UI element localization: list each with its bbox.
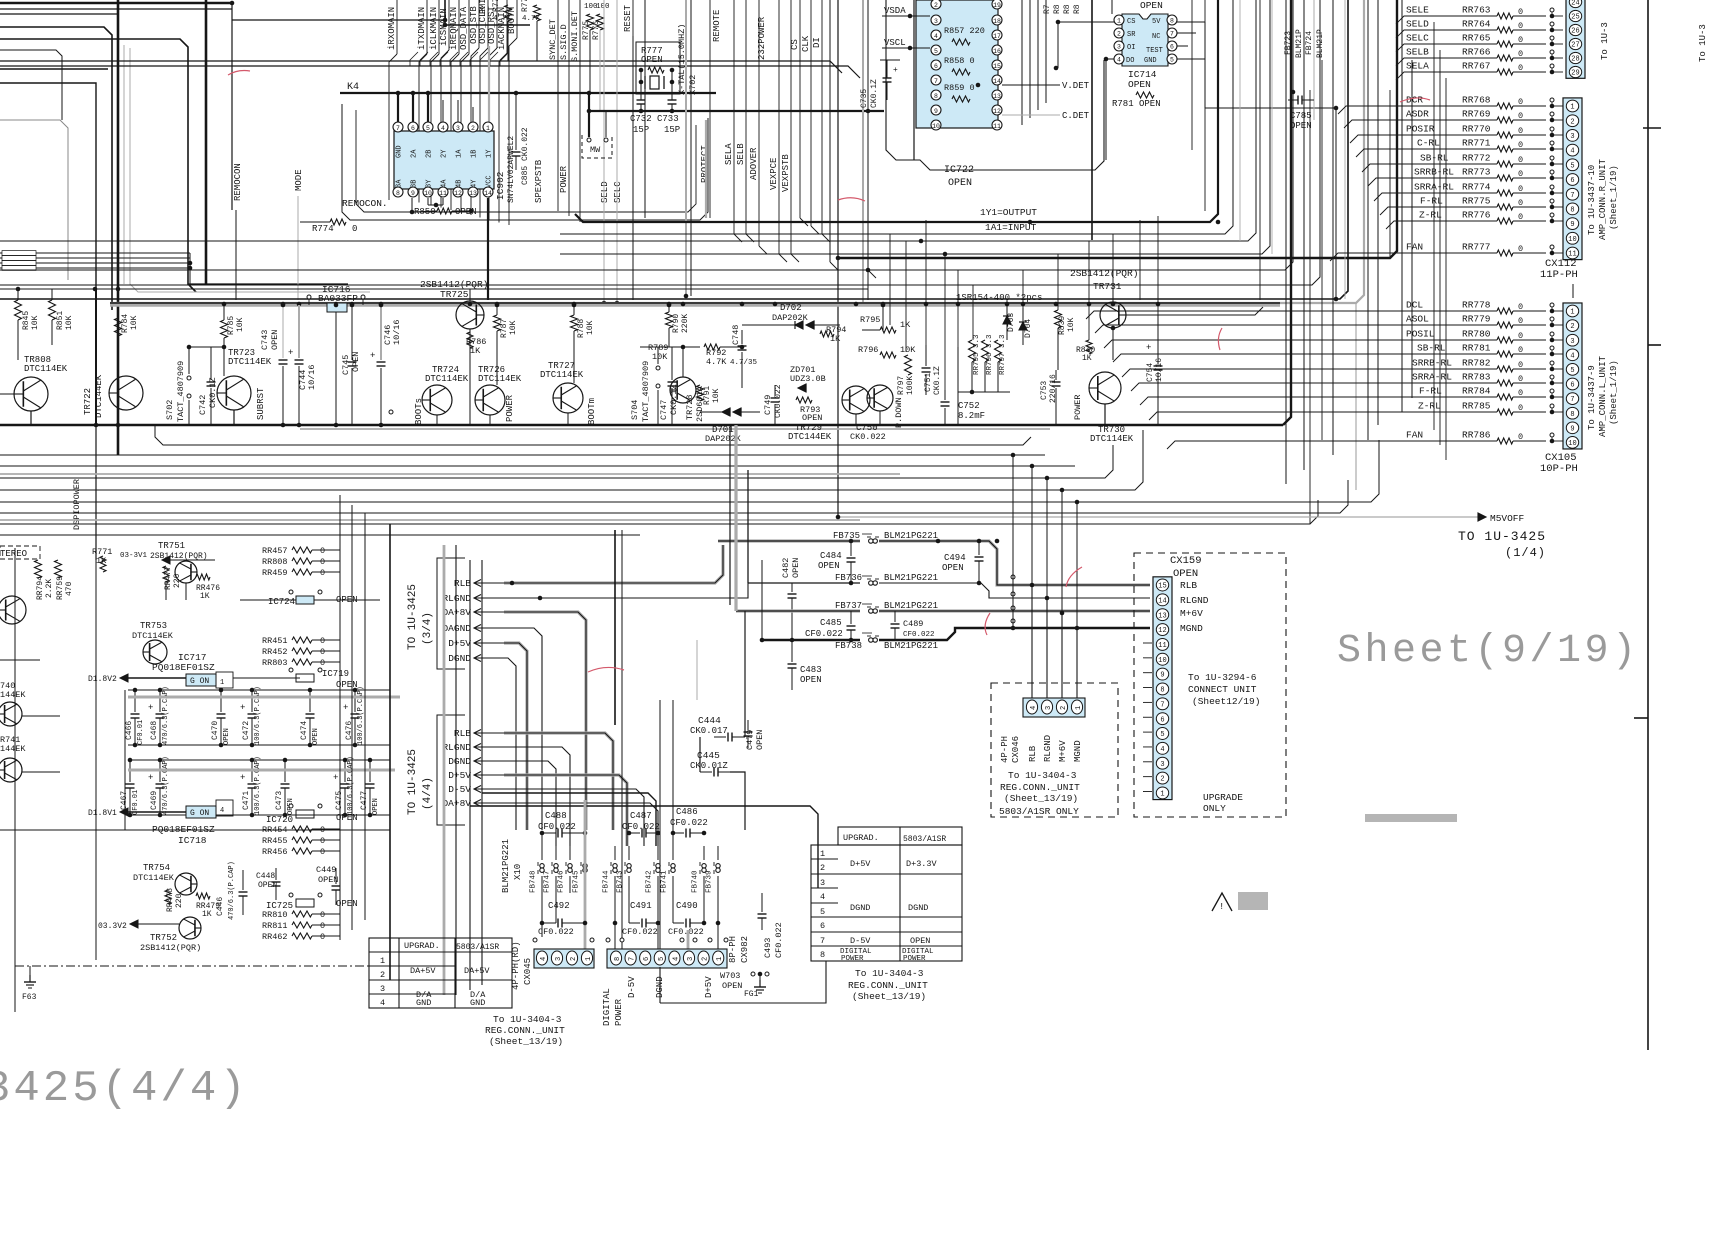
svg-text:R858 0: R858 0 <box>944 56 975 66</box>
tick <box>1648 344 1661 346</box>
pin 2 <box>698 951 709 965</box>
jogs <box>734 234 742 242</box>
node <box>1550 8 1554 12</box>
svg-text:C489: C489 <box>903 619 923 629</box>
svg-text:C466: C466 <box>125 721 134 740</box>
wire <box>308 299 310 305</box>
svg-text:15P: 15P <box>633 125 649 135</box>
wire <box>685 0 687 296</box>
svg-text:8: 8 <box>1570 207 1574 215</box>
ferrite bead FB738 <box>762 639 860 641</box>
wire <box>1143 701 1152 703</box>
wire <box>300 428 1050 430</box>
node <box>1550 361 1554 365</box>
wire <box>504 612 586 830</box>
svg-text:3: 3 <box>1160 761 1164 769</box>
open pin stubs <box>533 938 537 942</box>
svg-text:DCL: DCL <box>1406 300 1423 311</box>
svg-text:0: 0 <box>320 836 325 846</box>
svg-text:C476: C476 <box>345 721 354 740</box>
wire <box>1057 254 1059 310</box>
svg-text:RR797 3.3: RR797 3.3 <box>999 334 1007 375</box>
svg-text:SRRA-RL: SRRA-RL <box>1414 182 1454 193</box>
svg-text:10P-PH: 10P-PH <box>1540 463 1578 475</box>
svg-text:FB737: FB737 <box>835 601 862 611</box>
pin 9 <box>408 187 418 197</box>
wire <box>659 967 661 1003</box>
svg-text:POWER: POWER <box>841 955 864 963</box>
svg-text:4: 4 <box>540 957 548 961</box>
resistor RR796 <box>982 340 989 362</box>
wire <box>660 961 826 1003</box>
svg-text:FB736: FB736 <box>835 573 862 583</box>
resistor R839 <box>1055 310 1062 328</box>
ferrite bead FB743 <box>628 846 630 860</box>
svg-text:2: 2 <box>1160 776 1164 784</box>
wire <box>1271 0 1273 254</box>
svg-text:2B: 2B <box>426 150 434 158</box>
svg-text:POSIR: POSIR <box>1406 124 1435 135</box>
svg-text:3: 3 <box>820 878 825 888</box>
svg-text:(3/4): (3/4) <box>422 612 434 645</box>
svg-text:2: 2 <box>702 957 710 961</box>
resistor R774 <box>330 219 346 225</box>
node <box>1550 36 1554 40</box>
resistor R775 <box>587 14 594 30</box>
svg-text:CF0.022: CF0.022 <box>668 927 704 937</box>
wire <box>402 540 404 545</box>
wire <box>573 305 575 315</box>
svg-text:C-RL: C-RL <box>1417 138 1440 149</box>
svg-text:DA+5V: DA+5V <box>410 966 436 976</box>
svg-text:To 1U-3404-3: To 1U-3404-3 <box>855 968 924 979</box>
wire <box>1106 58 1114 60</box>
svg-text:OPEN: OPEN <box>948 178 972 189</box>
svg-text:220: 220 <box>173 573 182 588</box>
pin 7 <box>931 75 941 85</box>
wire <box>1061 613 1063 700</box>
svg-text:+: + <box>240 703 245 713</box>
svg-text:To 1U-3: To 1U-3 <box>1600 22 1610 60</box>
wire <box>364 513 366 920</box>
svg-text:FB739: FB739 <box>706 870 714 893</box>
svg-text:K4: K4 <box>347 82 359 93</box>
svg-text:3: 3 <box>1117 44 1121 51</box>
svg-text:3: 3 <box>555 957 563 961</box>
svg-text:FB741: FB741 <box>661 870 669 893</box>
svg-text:OPEN: OPEN <box>1140 0 1163 11</box>
svg-text:470/6.3(P.CAP): 470/6.3(P.CAP) <box>228 861 236 920</box>
svg-text:5803/A1SR: 5803/A1SR <box>903 835 946 844</box>
pin 5 <box>1167 54 1177 64</box>
svg-text:+: + <box>148 703 153 713</box>
wire <box>1239 0 1241 241</box>
svg-text:R788: R788 <box>577 319 586 338</box>
wire <box>30 411 32 425</box>
connector CX046 outline <box>991 683 1118 817</box>
svg-text:0: 0 <box>1518 111 1523 121</box>
wire <box>0 424 1283 426</box>
wire <box>515 93 517 133</box>
node <box>1550 213 1554 217</box>
svg-text:G ON: G ON <box>190 809 209 818</box>
svg-text:AMP_CONN.R_UNIT: AMP_CONN.R_UNIT <box>1598 158 1608 240</box>
svg-text:RR780: RR780 <box>1462 329 1491 340</box>
svg-text:R8: R8 <box>1073 4 1082 14</box>
pin 4 <box>669 951 680 965</box>
svg-text:1B: 1B <box>471 150 479 158</box>
svg-text:RR795 3.3: RR795 3.3 <box>973 334 981 375</box>
svg-text:R8: R8 <box>1053 4 1062 14</box>
svg-text:12: 12 <box>1158 627 1166 635</box>
wire <box>1002 84 1060 86</box>
pin 1 <box>483 122 493 132</box>
wire <box>450 52 458 66</box>
ferrite bead FB747 <box>555 846 557 860</box>
red mark <box>1218 328 1222 350</box>
svg-text:6: 6 <box>1170 44 1174 51</box>
svg-text:R773: R773 <box>521 0 530 12</box>
svg-text:To 1U-3437-9: To 1U-3437-9 <box>1587 365 1597 430</box>
svg-text:RR774: RR774 <box>1462 182 1491 193</box>
svg-text:0: 0 <box>320 847 325 857</box>
svg-text:8: 8 <box>820 950 825 960</box>
svg-text:TR751: TR751 <box>158 541 185 551</box>
svg-text:0: 0 <box>320 932 325 942</box>
resistor R776 <box>597 14 604 30</box>
op-amp U-IC902 body <box>394 131 494 189</box>
node <box>1028 220 1033 225</box>
svg-text:+: + <box>893 66 898 75</box>
svg-text:RR796 3.3: RR796 3.3 <box>986 334 994 375</box>
svg-text:TEREO: TEREO <box>0 549 27 559</box>
svg-text:8.2mF: 8.2mF <box>958 411 985 421</box>
svg-text:+: + <box>1146 343 1151 353</box>
svg-text:13: 13 <box>469 190 477 197</box>
wire <box>972 285 974 340</box>
svg-text:DTC114EK: DTC114EK <box>478 374 522 384</box>
wire <box>734 425 737 611</box>
wire <box>0 0 1348 299</box>
wire <box>427 198 429 205</box>
ferrite bead FB748 <box>541 846 543 860</box>
node <box>230 1 235 6</box>
wire <box>0 473 900 475</box>
svg-text:TR754: TR754 <box>143 863 170 873</box>
connector pins <box>1566 0 1585 78</box>
node <box>222 302 227 307</box>
wire <box>0 262 190 264</box>
wire <box>110 302 1280 304</box>
svg-text:19: 19 <box>993 2 1001 9</box>
svg-text:10: 10 <box>1568 236 1576 244</box>
wire <box>1396 16 1497 24</box>
wire <box>1112 289 1114 302</box>
svg-text:CF0.022: CF0.022 <box>622 822 660 832</box>
svg-text:2: 2 <box>820 863 825 873</box>
wire <box>0 0 1256 241</box>
svg-text:OSD_DATA: OSD_DATA <box>459 6 469 50</box>
svg-text:11: 11 <box>1158 642 1166 650</box>
wire <box>469 329 471 425</box>
svg-text:S702: S702 <box>165 400 175 420</box>
svg-text:RR763: RR763 <box>1462 5 1491 16</box>
wire <box>117 336 119 376</box>
wire <box>240 599 296 601</box>
wire <box>1338 106 1497 114</box>
resistor R840 <box>1086 340 1092 354</box>
svg-text:F-RL: F-RL <box>1420 196 1443 207</box>
svg-text:24: 24 <box>1571 0 1579 8</box>
svg-text:DI: DI <box>812 37 822 48</box>
svg-text:(Sheet_1/19): (Sheet_1/19) <box>1609 360 1619 425</box>
svg-text:9: 9 <box>1570 425 1574 433</box>
svg-text:(Sheet12/19): (Sheet12/19) <box>1192 696 1260 707</box>
svg-text:SELA: SELA <box>1406 61 1429 72</box>
svg-text:10K: 10K <box>586 320 595 335</box>
svg-text:DTC144EK: DTC144EK <box>788 432 832 442</box>
svg-text:TACT_4807909: TACT_4807909 <box>641 361 651 422</box>
svg-text:ASDR: ASDR <box>1406 109 1429 120</box>
wire <box>742 324 795 326</box>
svg-text:BOOTm: BOOTm <box>587 398 597 425</box>
transistor <box>867 385 893 411</box>
wire <box>1396 72 1497 80</box>
svg-text:17: 17 <box>993 33 1001 40</box>
wire <box>1143 657 1152 659</box>
svg-text:C484: C484 <box>820 551 842 561</box>
svg-text:10/16: 10/16 <box>1155 358 1164 382</box>
wire <box>235 210 237 300</box>
wire <box>469 560 471 990</box>
capacitor C475 <box>344 760 346 782</box>
wire <box>489 415 491 425</box>
resistor RR797 <box>995 340 1002 362</box>
wire <box>0 13 118 15</box>
wire <box>470 52 478 66</box>
svg-text:IC724: IC724 <box>268 597 295 607</box>
svg-text:RR808: RR808 <box>262 557 288 567</box>
wire <box>1287 92 1289 129</box>
pin 13 <box>468 187 478 197</box>
svg-text:BA033FP: BA033FP <box>318 293 358 304</box>
pin 7 <box>625 951 636 965</box>
red mark <box>1400 98 1430 102</box>
wire <box>165 582 167 600</box>
node <box>627 831 632 836</box>
wire <box>1396 44 1497 52</box>
svg-text:W703: W703 <box>720 971 740 981</box>
svg-text:RLB: RLB <box>1028 745 1038 762</box>
wire <box>1088 241 1090 340</box>
svg-text:RR462: RR462 <box>262 932 288 942</box>
svg-text:S.SIG.D: S.SIG.D <box>559 24 569 60</box>
svg-text:R791: R791 <box>703 386 712 405</box>
svg-text:TO 1U-3425: TO 1U-3425 <box>1458 529 1546 544</box>
svg-text:RR459: RR459 <box>262 568 288 578</box>
wire <box>1433 22 1435 430</box>
transistor TR722 <box>109 376 143 410</box>
svg-text:OPEN: OPEN <box>336 813 358 823</box>
wire <box>0 27 112 310</box>
svg-text:CS: CS <box>790 39 800 50</box>
svg-text:470/6.3(P.CAP): 470/6.3(P.CAP) <box>162 686 170 745</box>
svg-text:RR770: RR770 <box>1462 124 1491 135</box>
svg-text:13: 13 <box>1158 612 1166 620</box>
capacitor C483 <box>791 640 793 662</box>
svg-text:CX045: CX045 <box>523 958 533 985</box>
node <box>1550 22 1554 26</box>
ground FG3 <box>29 966 31 975</box>
svg-text:4.7K: 4.7K <box>706 357 727 367</box>
svg-text:11P-PH: 11P-PH <box>1540 269 1578 281</box>
wire <box>1086 311 1497 319</box>
svg-text:1Y1=OUTPUT: 1Y1=OUTPUT <box>980 207 1037 218</box>
connector CX982 <box>607 949 727 968</box>
boundary <box>14 548 16 1012</box>
svg-text:R787: R787 <box>500 319 509 338</box>
svg-text:2: 2 <box>1117 31 1121 38</box>
svg-text:(Sheet_13/19): (Sheet_13/19) <box>489 1036 563 1047</box>
node <box>1550 185 1554 189</box>
wire <box>0 257 190 259</box>
svg-text:10: 10 <box>424 190 432 197</box>
svg-text:2SB1412(PQR): 2SB1412(PQR) <box>1070 268 1138 279</box>
wire <box>700 411 722 413</box>
svg-text:0: 0 <box>1518 7 1523 17</box>
wire <box>508 52 510 225</box>
svg-text:RR775: RR775 <box>1462 196 1491 207</box>
svg-text:C470: C470 <box>211 721 220 740</box>
svg-text:CF0.022: CF0.022 <box>903 631 935 639</box>
svg-text:0: 0 <box>1518 169 1523 179</box>
svg-text:7: 7 <box>1570 396 1574 404</box>
ic outline <box>356 110 696 212</box>
wire <box>389 524 391 980</box>
svg-text:2: 2 <box>1060 706 1068 710</box>
ferrite bead FB745 <box>584 846 586 860</box>
wire <box>632 36 634 300</box>
wire <box>0 0 1293 270</box>
wire <box>188 283 348 285</box>
svg-text:12: 12 <box>993 108 1001 115</box>
svg-text:C747: C747 <box>659 400 669 420</box>
capacitor C477 <box>369 760 371 782</box>
transistor TR752 <box>179 917 201 939</box>
transistor TR730 <box>1089 372 1121 404</box>
wire <box>889 234 891 325</box>
switch MW <box>587 138 591 142</box>
wire <box>1157 216 1159 315</box>
wire <box>1057 328 1059 370</box>
wire <box>1167 441 1497 449</box>
pin 16 <box>992 45 1002 55</box>
svg-text:3: 3 <box>1570 133 1574 141</box>
svg-text:D+3.3V: D+3.3V <box>906 859 938 869</box>
svg-text:(4/4): (4/4) <box>422 777 434 810</box>
wire <box>1445 78 1447 460</box>
svg-text:RR778: RR778 <box>1462 300 1491 311</box>
wire <box>504 628 542 830</box>
svg-text:To 1U-3404-3: To 1U-3404-3 <box>1008 770 1077 781</box>
wire <box>335 312 337 425</box>
wire <box>640 346 700 348</box>
wire <box>110 0 1364 303</box>
wire <box>1002 114 1060 116</box>
wire <box>1012 455 1014 628</box>
svg-text:DIGITAL: DIGITAL <box>602 988 612 1026</box>
svg-text:SELD: SELD <box>600 181 610 203</box>
svg-text:14: 14 <box>993 78 1001 85</box>
svg-text:8P-PH: 8P-PH <box>728 936 738 963</box>
svg-text:C743: C743 <box>260 330 270 350</box>
wire <box>958 391 1010 393</box>
svg-text:FAN: FAN <box>1406 430 1423 441</box>
svg-text:SB-RL: SB-RL <box>1417 343 1446 354</box>
svg-text:DGND: DGND <box>850 903 870 913</box>
svg-text:FB740: FB740 <box>692 870 700 893</box>
svg-text:15: 15 <box>993 63 1001 70</box>
regulator G ON <box>186 674 216 686</box>
wire rail <box>128 689 390 691</box>
svg-text:C446: C446 <box>216 897 225 916</box>
svg-text:R774: R774 <box>312 224 334 234</box>
svg-text:R784: R784 <box>121 314 130 333</box>
wire <box>603 0 605 303</box>
wire <box>829 0 831 262</box>
svg-text:10: 10 <box>1158 657 1166 665</box>
ferrite bead FB741 <box>672 846 674 860</box>
wire <box>339 495 341 940</box>
wire <box>1401 0 1403 412</box>
svg-text:(Sheet_13/19): (Sheet_13/19) <box>1004 793 1078 804</box>
pin 8 <box>393 187 403 197</box>
svg-text:D-5V: D-5V <box>850 936 871 946</box>
capacitor C753 <box>1055 370 1057 380</box>
warning <box>1212 893 1232 911</box>
svg-text:DA+8V: DA+8V <box>442 798 471 809</box>
wire <box>1204 22 1206 108</box>
wire <box>1046 478 1048 598</box>
wire <box>567 413 569 425</box>
svg-text:5: 5 <box>820 907 825 917</box>
svg-text:4: 4 <box>441 125 445 132</box>
wire <box>504 803 658 846</box>
node <box>1550 346 1554 350</box>
node <box>1060 611 1065 616</box>
svg-text:SELD: SELD <box>1406 19 1429 30</box>
node <box>1550 98 1554 102</box>
wire <box>297 196 299 300</box>
svg-text:CK0.01Z: CK0.01Z <box>690 761 728 771</box>
resistor R784 <box>115 318 122 336</box>
svg-text:0: 0 <box>1518 63 1523 73</box>
wire <box>110 303 1280 306</box>
pin 10 <box>423 187 433 197</box>
pin 8 <box>1167 15 1177 25</box>
svg-text:7: 7 <box>820 936 825 946</box>
pin 4 <box>931 30 941 40</box>
svg-text:IC719: IC719 <box>322 669 349 679</box>
svg-text:DTC114EK: DTC114EK <box>228 357 272 367</box>
node <box>389 410 393 414</box>
svg-text:C732 C733: C732 C733 <box>630 114 679 124</box>
wire <box>340 92 716 94</box>
svg-text:REG.CONN._UNIT: REG.CONN._UNIT <box>1000 782 1080 793</box>
capacitor C469 <box>159 760 161 782</box>
svg-text:VEXPCE: VEXPCE <box>769 158 779 190</box>
wire <box>445 0 530 25</box>
